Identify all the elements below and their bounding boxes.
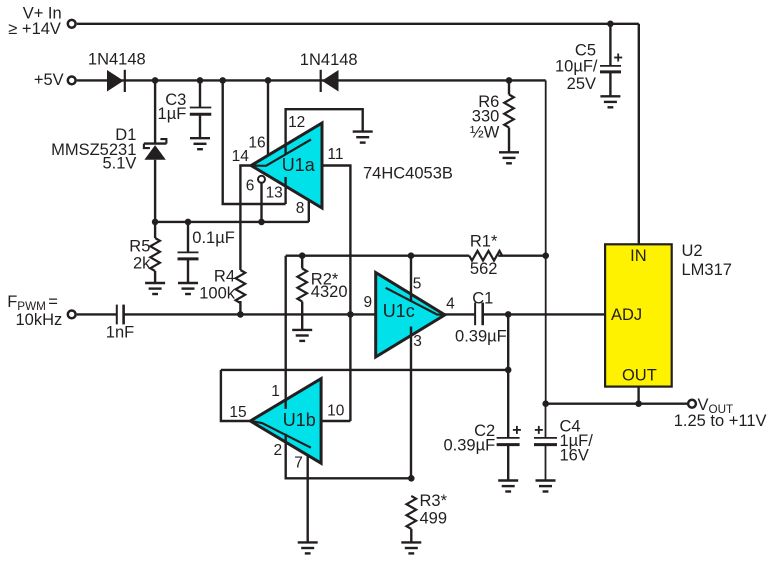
ground below 0.1uF [178, 283, 198, 294]
wire R2 bottom lead to ground [301, 302, 303, 330]
terminal +5V [68, 77, 76, 85]
zener diode D1 MMSZ5231 [144, 139, 167, 160]
wire +5V to U1a pin 13 loop [223, 80, 286, 204]
junction summing/R2 [299, 252, 306, 259]
wire C4 bottom lead [545, 446, 547, 481]
wire summing rail right of R1 [498, 254, 546, 256]
ground below R2 [292, 330, 312, 341]
wire C3 bottom lead [199, 115, 201, 139]
ground below C5 [600, 96, 620, 107]
ground below C2 [498, 481, 518, 492]
wire V+ down to U2 IN [638, 24, 640, 245]
wire ground bus under U1a [155, 221, 309, 223]
wire U1b pin 2 to R3 node [286, 434, 412, 479]
junction summing/R1 right [542, 252, 549, 259]
terminal V_OUT [688, 400, 696, 408]
svg-text:13: 13 [266, 185, 283, 202]
svg-text:1nF: 1nF [106, 324, 134, 342]
svg-text:12: 12 [288, 114, 305, 131]
wire U1b feedback top rail [221, 369, 508, 371]
capacitor C5 10uF/25V [600, 54, 622, 72]
svg-text:R4: R4 [214, 268, 235, 286]
wire F_PWM input line [77, 313, 117, 315]
wire U1c pin 3 to R3 node [410, 327, 412, 479]
svg-text:9: 9 [363, 294, 372, 311]
svg-text:R3*: R3* [420, 492, 448, 510]
svg-text:2: 2 [273, 442, 282, 459]
svg-text:100k: 100k [199, 284, 236, 302]
wire U1c pin 5 stub [410, 256, 412, 302]
ground for U1b pin 7 [298, 542, 318, 553]
svg-text:4: 4 [446, 296, 455, 313]
junction output/C4 [542, 400, 549, 407]
svg-text:5: 5 [413, 276, 422, 293]
capacitor 1nF [117, 305, 124, 325]
capacitor C3 1uF [190, 108, 212, 115]
wire R5 bottom lead [154, 271, 156, 283]
capacitor C2 0.39uF [497, 426, 521, 445]
resistor R5 2k [150, 238, 160, 271]
wire 0.1uF top lead [187, 222, 189, 253]
wire U1b pin 10 stub [321, 420, 350, 422]
junction F_PWM/R4 [237, 311, 244, 318]
junction +5V/C3 [197, 77, 204, 84]
wire D1 cathode lead [154, 80, 156, 143]
svg-text:562: 562 [470, 260, 498, 278]
wire right-side vertical (output feedback riser) [545, 80, 547, 403]
wire C4 top lead [545, 404, 547, 438]
svg-text:R1*: R1* [470, 232, 498, 250]
wire summing rail R2/R1 [286, 254, 470, 256]
junction +5V/pin16 [265, 77, 272, 84]
resistor R3* 499 [406, 496, 416, 529]
resistor R4 100k [236, 270, 246, 303]
wire U1a pin 16 to +5V [267, 80, 269, 155]
svg-text:U1c: U1c [383, 301, 415, 321]
svg-text:0.39µF: 0.39µF [443, 437, 495, 455]
wire R2 top lead [301, 256, 303, 269]
terminal V+ In [68, 20, 76, 28]
wire C5 top lead [609, 24, 611, 66]
svg-text:≥ +14V: ≥ +14V [8, 20, 61, 38]
svg-text:LM317: LM317 [682, 261, 732, 279]
ground below R5 [145, 283, 165, 294]
mux section U1b triangle [250, 379, 321, 464]
svg-text:8: 8 [296, 200, 305, 217]
svg-text:OUT: OUT [622, 367, 657, 385]
wire U1b pin 7 to ground [307, 455, 309, 542]
wire U1a pin 14 to R4 [240, 166, 251, 271]
junction feedback rail/C2 [505, 367, 512, 374]
svg-text:1.25 to +11V: 1.25 to +11V [674, 412, 767, 430]
wire ADJ node down to C2 [507, 314, 509, 438]
svg-text:10: 10 [327, 402, 345, 419]
svg-text:U1b: U1b [283, 410, 316, 430]
wire U1b pin 15 loop [221, 370, 250, 421]
junction R3 node [408, 475, 415, 482]
resistor R2* 4320 [297, 269, 307, 302]
wire R5 top lead [154, 222, 156, 238]
wire U1a pin 6 to bus [260, 183, 262, 222]
svg-text:ADJ: ADJ [611, 306, 642, 324]
svg-text:499: 499 [420, 509, 448, 527]
wire R3 bottom lead [410, 529, 412, 543]
wire +5V rail [77, 79, 546, 81]
wire F_PWM line after 1nF [124, 313, 376, 315]
junction summing/pin5 [408, 252, 415, 259]
svg-text:IN: IN [630, 247, 647, 265]
capacitor C4 1uF/16V [534, 426, 557, 445]
svg-text:5.1V: 5.1V [102, 155, 136, 173]
svg-text:16V: 16V [560, 447, 589, 465]
junction bus/pin6 [258, 219, 265, 226]
ground below C4 [536, 481, 556, 492]
resistor R6 330 [504, 95, 514, 128]
svg-text:R5: R5 [129, 237, 150, 255]
svg-text:C1: C1 [472, 289, 493, 307]
wire U1c pin 4 to C1 [445, 313, 475, 315]
svg-text:16: 16 [248, 134, 265, 151]
wire U2 OUT lead [637, 387, 639, 404]
svg-text:½W: ½W [470, 124, 500, 142]
wire U1a pin 12 stub to ground [286, 109, 363, 155]
resistor R1* 562 [469, 251, 502, 261]
svg-text:15: 15 [229, 404, 246, 421]
wire C2 bottom lead [507, 446, 509, 481]
svg-text:+5V: +5V [34, 71, 64, 89]
capacitor C1 0.39uF [475, 303, 483, 326]
svg-text:7: 7 [294, 455, 303, 472]
ground below C3 [190, 138, 210, 149]
svg-text:3: 3 [413, 333, 422, 350]
svg-text:U2: U2 [682, 242, 703, 260]
ground below R3 [401, 542, 421, 553]
svg-text:0.39µF: 0.39µF [455, 328, 507, 346]
ground below R6 [499, 152, 519, 163]
junction +5V/pin13 loop [219, 77, 226, 84]
svg-text:U1a: U1a [282, 155, 316, 175]
svg-text:11: 11 [327, 146, 343, 163]
wire C1 to U2 ADJ [483, 313, 605, 315]
capacitor 0.1uF [178, 252, 199, 259]
wire C5 bottom lead [609, 73, 611, 96]
svg-text:6: 6 [246, 178, 255, 195]
junction bus/0.1uF [185, 219, 192, 226]
svg-text:1N4148: 1N4148 [88, 50, 146, 68]
diode 1N4148 (left) [107, 70, 125, 92]
terminal F_PWM [68, 311, 76, 319]
junction bus/D1-R5 [152, 219, 159, 226]
wire U1a pin 8 stub [308, 200, 310, 222]
wire U1a pin 13 stub [284, 177, 286, 204]
svg-text:74HC4053B: 74HC4053B [363, 165, 453, 183]
wire R4 bottom lead [239, 301, 241, 314]
wire R6 bottom lead [508, 128, 510, 153]
svg-text:25V: 25V [567, 75, 596, 93]
wire D1 anode to bus [154, 160, 156, 222]
diode 1N4148 (right) [321, 70, 339, 92]
junction F_PWM/select [347, 311, 354, 318]
svg-text:1: 1 [271, 383, 280, 400]
wire U1b pin 1 from summing rail [285, 256, 287, 409]
wire C3 top lead [199, 80, 201, 107]
svg-text:1N4148: 1N4148 [300, 51, 358, 69]
wire U1a pin 11 select line down to U1b pin 10 [322, 166, 350, 422]
svg-text:4320: 4320 [311, 283, 348, 301]
LM317 regulator U2 [605, 244, 672, 386]
svg-text:0.1µF: 0.1µF [192, 229, 235, 247]
junction +5V/D1 [152, 77, 159, 84]
ground for U1a pin 12 [353, 132, 373, 143]
wire R6 top lead [508, 80, 510, 94]
junction ADJ/C2 [505, 311, 512, 318]
wire output line [546, 403, 688, 405]
mux section U1a (74HC4053 A switch) triangle [251, 123, 322, 208]
junction output/U2 OUT [635, 400, 642, 407]
svg-text:10µF/: 10µF/ [555, 58, 598, 76]
wire 0.1uF bottom lead [187, 259, 189, 283]
wire V+ input rail [77, 23, 639, 25]
junction +5V/R6 [506, 77, 513, 84]
junction V+/C5 [607, 21, 614, 28]
svg-text:14: 14 [232, 148, 250, 165]
inverter bubble U1a pin 6 [258, 176, 265, 183]
mux section U1c triangle [376, 273, 445, 358]
svg-text:10kHz: 10kHz [16, 311, 63, 329]
svg-text:1µF: 1µF [158, 105, 187, 123]
svg-text:2k: 2k [133, 254, 151, 272]
